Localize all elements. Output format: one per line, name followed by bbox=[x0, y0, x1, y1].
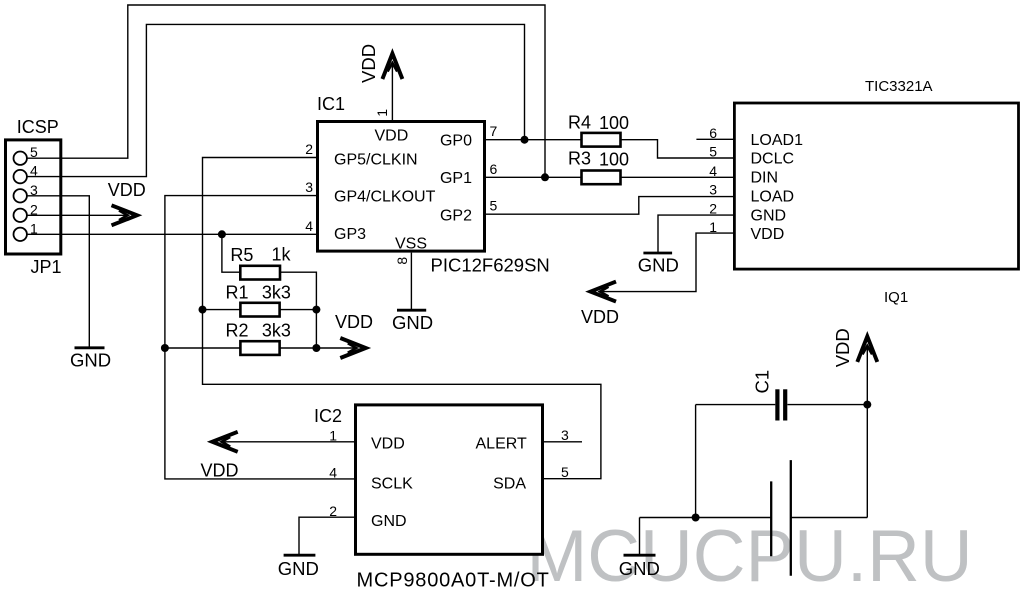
wire GP0 to R4 bbox=[486, 139, 582, 141]
svg-text:VDD: VDD bbox=[581, 307, 619, 327]
wire R2 right lead to VDD arrow bbox=[280, 347, 354, 349]
ground IC1 VSS bbox=[392, 310, 433, 333]
svg-text:3k3: 3k3 bbox=[262, 283, 291, 303]
VDD arrow left at TIC3321A bbox=[591, 282, 617, 302]
svg-text:GND: GND bbox=[278, 558, 319, 579]
VDD arrow left at IC2 bbox=[212, 432, 238, 452]
wire GP5/CLKIN to IC2 SDA (net SDA) bbox=[203, 158, 601, 479]
resistor R3 bbox=[582, 171, 621, 185]
resistor R5 bbox=[240, 266, 280, 280]
connector JP1 bbox=[6, 140, 61, 254]
junction R1 right on pull-up rail bbox=[312, 306, 320, 314]
svg-text:IC2: IC2 bbox=[314, 406, 342, 426]
svg-text:GND: GND bbox=[371, 513, 407, 530]
wire JP1 pin4 to GP0 net (inner top loop) bbox=[27, 24, 525, 176]
svg-text:3k3: 3k3 bbox=[262, 321, 291, 341]
svg-text:5: 5 bbox=[709, 144, 717, 160]
wire R4 to TIC3321A pin5 bbox=[621, 140, 734, 158]
IC U1: IC1 PIC12F629SN body bbox=[318, 122, 485, 252]
wire R2 left lead bbox=[165, 347, 241, 349]
svg-text:MCUCPU.RU: MCUCPU.RU bbox=[527, 516, 973, 590]
svg-text:100: 100 bbox=[599, 150, 629, 170]
svg-text:5: 5 bbox=[490, 198, 498, 214]
svg-text:6: 6 bbox=[490, 161, 498, 177]
svg-text:VSS: VSS bbox=[395, 236, 427, 253]
svg-text:GND: GND bbox=[70, 350, 111, 371]
wire C1 top net bbox=[696, 404, 868, 406]
wire JP1 pin3 to ground bbox=[27, 196, 89, 347]
VDD arrow up at C1 bbox=[857, 336, 877, 362]
battery cell plate long bbox=[790, 460, 792, 576]
wire GP4/CLKOUT to IC2 SCLK (net SCLK) bbox=[165, 196, 354, 479]
junction R1 left on SDA net bbox=[199, 306, 207, 314]
svg-text:GP4/CLKOUT: GP4/CLKOUT bbox=[334, 189, 436, 206]
wire IC2 pin1 to VDD bbox=[224, 441, 354, 443]
IC IQ1: TIC3321A display driver body bbox=[734, 103, 1018, 269]
VDD arrow right at pull-up rail bbox=[340, 338, 366, 358]
svg-text:GND: GND bbox=[751, 207, 787, 224]
svg-text:JP1: JP1 bbox=[31, 257, 62, 277]
ground TIC3321A bbox=[638, 253, 679, 276]
svg-text:7: 7 bbox=[490, 123, 498, 139]
svg-text:3: 3 bbox=[561, 427, 569, 443]
junction C1 bottom bbox=[692, 514, 700, 522]
svg-text:VDD: VDD bbox=[751, 226, 785, 243]
junction C1 top right bbox=[863, 401, 871, 409]
svg-text:VDD: VDD bbox=[371, 436, 405, 453]
svg-text:SCLK: SCLK bbox=[371, 476, 413, 493]
svg-text:ALERT: ALERT bbox=[476, 435, 528, 452]
svg-text:LOAD1: LOAD1 bbox=[751, 132, 804, 149]
svg-text:VDD: VDD bbox=[832, 328, 853, 367]
junction on GP0 line bbox=[521, 136, 529, 144]
svg-text:R1: R1 bbox=[226, 283, 249, 303]
svg-text:5: 5 bbox=[561, 464, 569, 480]
wire GP1 to R3 bbox=[486, 176, 582, 178]
capacitor C1 bbox=[777, 389, 785, 420]
wire R1 right lead bbox=[280, 309, 317, 311]
svg-text:2: 2 bbox=[709, 201, 717, 217]
svg-text:2: 2 bbox=[305, 141, 313, 157]
IQ1 pin numbers bbox=[709, 125, 717, 235]
wire TIC3321A pin2 to ground bbox=[658, 215, 733, 252]
svg-text:TIC3321A: TIC3321A bbox=[865, 78, 933, 95]
ground battery bbox=[619, 555, 660, 579]
svg-text:DIN: DIN bbox=[751, 170, 779, 187]
wire GP2 to TIC3321A pin3 bbox=[486, 197, 733, 215]
svg-text:IC1: IC1 bbox=[317, 94, 345, 114]
junction on GP1 line bbox=[541, 173, 549, 181]
svg-text:DCLC: DCLC bbox=[751, 151, 795, 168]
wire IC1 VDD pin to VDD arrow bbox=[391, 66, 393, 121]
resistor R4 bbox=[582, 133, 621, 147]
svg-text:C1: C1 bbox=[751, 370, 772, 394]
svg-text:MCP9800A0T-M/OT: MCP9800A0T-M/OT bbox=[357, 570, 550, 590]
svg-text:VDD: VDD bbox=[335, 312, 373, 332]
wire IC1 VSS pin to ground bbox=[410, 253, 412, 310]
VDD arrow right at JP1 bbox=[112, 205, 138, 225]
svg-text:IQ1: IQ1 bbox=[884, 289, 908, 306]
svg-text:R4: R4 bbox=[568, 112, 591, 132]
svg-text:VDD: VDD bbox=[375, 128, 409, 145]
wire right side down bbox=[866, 405, 868, 518]
wire TIC3321A pin6 stub bbox=[696, 138, 733, 140]
wire JP1 pin2 to VDD bbox=[27, 214, 125, 216]
svg-text:3: 3 bbox=[709, 182, 717, 198]
wire VDD riser at C1 bbox=[866, 348, 868, 404]
svg-text:R2: R2 bbox=[226, 321, 249, 341]
svg-text:ICSP: ICSP bbox=[17, 117, 59, 137]
svg-text:VDD: VDD bbox=[108, 180, 146, 200]
svg-text:GP1: GP1 bbox=[440, 170, 472, 187]
wire JP1 pin5 to GP1 net (outer top loop) bbox=[27, 5, 545, 177]
wire battery bottom net bbox=[640, 517, 868, 519]
battery cell plate short bbox=[770, 481, 772, 556]
svg-text:4: 4 bbox=[329, 465, 337, 481]
wire battery GND drop bbox=[639, 518, 641, 555]
wire R5 left lead bbox=[222, 234, 240, 272]
svg-text:4: 4 bbox=[709, 163, 717, 179]
ground JP1 bbox=[70, 348, 111, 371]
wire TIC3321A pin1 to VDD bbox=[603, 233, 734, 292]
resistor R2 bbox=[240, 341, 279, 355]
junction R2 right on pull-up rail bbox=[312, 344, 320, 352]
wire IC2 pin2 to ground bbox=[299, 517, 354, 554]
svg-text:GND: GND bbox=[619, 558, 660, 579]
svg-text:4: 4 bbox=[305, 218, 313, 234]
IC1 pin numbers bbox=[305, 123, 497, 234]
wire R3 to TIC3321A pin4 bbox=[621, 176, 734, 178]
svg-text:8: 8 bbox=[394, 257, 410, 265]
svg-text:GND: GND bbox=[638, 255, 679, 276]
resistor R1 bbox=[240, 303, 279, 317]
IC1 pin names bbox=[334, 128, 472, 253]
ground IC2 bbox=[278, 555, 319, 579]
IC2 pin numbers bbox=[329, 427, 569, 519]
wire IC2 pin3 stub bbox=[544, 441, 582, 443]
svg-text:VDD: VDD bbox=[201, 461, 239, 481]
wire R5 right lead to pull-up rail bbox=[280, 272, 316, 348]
svg-text:GP5/CLKIN: GP5/CLKIN bbox=[334, 151, 418, 168]
svg-text:VDD: VDD bbox=[358, 44, 379, 83]
svg-text:100: 100 bbox=[599, 113, 629, 133]
svg-text:6: 6 bbox=[709, 125, 717, 141]
junction R2 left on SCLK net bbox=[161, 344, 169, 352]
wire JP1 pin1 to IC1 GP3 bbox=[27, 233, 316, 235]
svg-text:R3: R3 bbox=[568, 149, 591, 169]
junction node GP3/R5 bbox=[218, 230, 226, 238]
svg-text:1: 1 bbox=[374, 109, 390, 117]
svg-text:GP2: GP2 bbox=[440, 208, 472, 225]
IC2 pin names bbox=[371, 435, 527, 530]
svg-text:SDA: SDA bbox=[493, 476, 526, 493]
svg-text:LOAD: LOAD bbox=[751, 188, 795, 205]
svg-text:3: 3 bbox=[305, 179, 313, 195]
temperature sensor IC2 body bbox=[356, 405, 543, 554]
svg-text:GP0: GP0 bbox=[440, 133, 472, 150]
svg-text:R5: R5 bbox=[230, 245, 253, 265]
svg-text:PIC12F629SN: PIC12F629SN bbox=[431, 255, 550, 276]
wire C1 left down bbox=[695, 405, 697, 518]
svg-text:1k: 1k bbox=[272, 245, 292, 265]
VDD arrow up at IC1 bbox=[382, 54, 402, 80]
wire R1 left lead bbox=[203, 309, 241, 311]
IQ1 pin names bbox=[751, 132, 804, 243]
svg-text:GND: GND bbox=[392, 312, 433, 333]
svg-text:GP3: GP3 bbox=[334, 226, 366, 243]
